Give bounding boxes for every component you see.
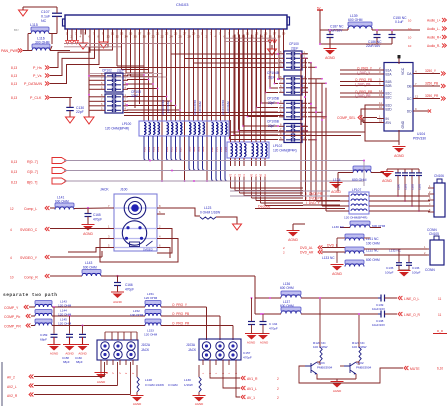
svg-text:LINE_O_R: LINE_O_R: [404, 313, 421, 317]
svg-text:22pF: 22pF: [268, 76, 275, 80]
svg-text:COMP_SEL: COMP_SEL: [337, 116, 356, 120]
svg-text:22pF: 22pF: [268, 101, 275, 105]
inductor L133 NC 600 OHM: [345, 260, 364, 264]
wire: [28, 33, 31, 35]
junction dots: [88, 75, 90, 77]
svg-text:13: 13: [379, 93, 383, 97]
svg-text:8,13: 8,13: [11, 96, 17, 100]
svg-text:120 OHM(8P4R): 120 OHM(8P4R): [273, 149, 297, 153]
svg-text:470pF: 470pF: [125, 288, 134, 292]
svg-text:VCC: VCC: [401, 67, 405, 75]
jack J100 pins: [106, 207, 114, 209]
svg-text:15: 15: [379, 119, 383, 123]
wires into LP107: [330, 195, 349, 197]
transistor Q102 PMBS3904: [344, 362, 356, 374]
svg-text:Audio_R-: Audio_R-: [427, 44, 440, 48]
svg-text:CP100: CP100: [289, 42, 299, 46]
svg-text:0 OHM 1/16W: 0 OHM 1/16W: [145, 383, 164, 387]
svg-text:3250_PB: 3250_PB: [425, 82, 438, 86]
capacitor C107 0.1uF NC: [52, 12, 62, 14]
svg-text:L134: L134: [333, 178, 341, 182]
jack J100 S-video circle: [122, 221, 146, 245]
svg-text:22pF: 22pF: [117, 69, 124, 73]
svg-text:LP101 8P4R: LP101 8P4R: [161, 100, 165, 115]
net LINE_O_R: [398, 312, 402, 316]
svg-text:C159: C159: [40, 333, 48, 337]
inductor L130 NC 600 OHM: [350, 221, 370, 225]
ground arrow mid: [103, 29, 105, 42]
svg-text:NC: NC: [41, 19, 47, 23]
wires CP right pins to routing column: [301, 53, 308, 55]
power arrow top-left: [19, 10, 28, 16]
inductor L144 120 OHM: [35, 310, 52, 314]
wires below LP102 with labels: [230, 158, 232, 166]
svg-text:LP103 8P4R: LP103 8P4R: [193, 100, 197, 115]
svg-text:600 OHM: 600 OHM: [83, 266, 97, 270]
inductor L143b 120 OHM: [35, 301, 52, 305]
svg-text:L143: L143: [85, 261, 93, 265]
resistor L128 0 OHM 1/16W: [136, 365, 138, 377]
svg-text:8,13: 8,13: [11, 74, 17, 78]
svg-text:8,13: 8,13: [11, 170, 17, 174]
svg-text:DVD_L: DVD_L: [327, 244, 338, 248]
svg-text:PMBS3904: PMBS3904: [356, 366, 372, 370]
svg-text:AGND: AGND: [195, 402, 203, 406]
AGND near LP107: [386, 169, 388, 172]
svg-text:8,13: 8,13: [11, 160, 17, 164]
svg-text:C182: C182: [411, 183, 414, 190]
svg-text:120 OHM: 120 OHM: [144, 333, 158, 337]
svg-text:CP104B: CP104B: [267, 71, 279, 75]
wire mute: [299, 366, 403, 383]
wires above LP102: [230, 120, 232, 142]
no-connect DD: [421, 110, 428, 112]
svg-text:JACK: JACK: [100, 188, 109, 192]
svg-text:100 OHM: 100 OHM: [366, 242, 380, 246]
net AV1_L: [223, 365, 240, 388]
wire audio rail: [320, 29, 348, 31]
ground C135/C136: [399, 269, 409, 271]
svg-text:AGND: AGND: [50, 352, 58, 356]
capacitors C180-C183 0.1uF: [397, 169, 399, 173]
svg-text:Decode: Decode: [258, 205, 270, 209]
svg-text:CP106B: CP106B: [267, 120, 279, 124]
svg-text:22pF: 22pF: [268, 124, 275, 128]
svg-text:AGND: AGND: [331, 190, 341, 194]
svg-text:AV_1: AV_1: [247, 396, 255, 400]
wire: [23, 50, 32, 52]
svg-text:10: 10: [408, 36, 412, 40]
svg-text:CP105B: CP105B: [267, 97, 279, 101]
wire jack right out: [165, 208, 200, 216]
svg-text:10uF/16V: 10uF/16V: [372, 307, 385, 311]
svg-text:0.1uF: 0.1uF: [395, 20, 403, 24]
svg-text:10: 10: [10, 276, 14, 280]
wire: [22, 7, 24, 10]
svg-text:C107: C107: [41, 10, 50, 14]
wire jack wrap: [100, 239, 178, 263]
svg-text:AV1_R: AV1_R: [247, 377, 258, 381]
wires transistors: [317, 361, 320, 363]
svg-text:AV2_L: AV2_L: [7, 385, 17, 389]
svg-text:AGND: AGND: [113, 300, 123, 304]
svg-text:BK!: BK!: [14, 28, 19, 32]
wire: [320, 43, 392, 45]
svg-text:AGND: AGND: [332, 272, 342, 276]
wires from CN103 pins: [143, 35, 145, 122]
svg-text:C183: C183: [418, 183, 421, 190]
svg-text:3250_Y: 3250_Y: [425, 69, 437, 73]
svg-text:4: 4: [10, 256, 12, 260]
svg-text:8: 8: [323, 116, 325, 120]
wire columns to LP107 rows: [311, 195, 330, 197]
svg-text:I_DVD_PR: I_DVD_PR: [306, 192, 323, 196]
svg-text:CP102: CP102: [102, 69, 112, 73]
svg-text:2: 2: [277, 396, 279, 400]
inductor L131 NC 100 OHM: [345, 234, 364, 238]
svg-text:100pF: 100pF: [385, 271, 394, 275]
svg-text:AGND: AGND: [78, 352, 86, 356]
svg-text:10: 10: [408, 44, 412, 48]
svg-text:Audio_L+: Audio_L+: [427, 19, 441, 23]
svg-text:1/16W: 1/16W: [184, 383, 193, 387]
net LINE_O_L: [398, 296, 402, 300]
svg-text:PI5V330: PI5V330: [413, 137, 426, 141]
gray signal lines to LP107: [230, 190, 330, 192]
svg-text:AV_2: AV_2: [7, 376, 15, 380]
jack J100 RCA circle: [124, 197, 146, 219]
svg-text:22pF: 22pF: [131, 94, 138, 98]
wires below J103A: [202, 360, 204, 365]
wire svideo-y riser: [101, 251, 103, 257]
svg-text:L128: L128: [145, 378, 152, 382]
svg-text:AGND: AGND: [382, 179, 392, 183]
wires B1D/B2D: [365, 105, 377, 121]
svg-text:LP107: LP107: [352, 188, 361, 192]
capacitor C186 NC 22uF/16V: [376, 30, 378, 34]
svg-text:8,13: 8,13: [11, 82, 17, 86]
svg-text:600 OHM: 600 OHM: [366, 258, 380, 262]
resistor L130 0 OHM 1/16W: [198, 365, 200, 377]
svg-text:GND: GND: [401, 120, 405, 128]
svg-text:P_DATA/IN: P_DATA/IN: [24, 82, 42, 86]
AGND under transistors: [332, 383, 342, 388]
wire pale rows: [90, 73, 162, 75]
svg-text:AGND: AGND: [65, 352, 73, 356]
jack J100 body: [114, 194, 157, 251]
svg-text:10: 10: [408, 27, 412, 31]
svg-text:8,13: 8,13: [11, 66, 17, 70]
net O_PRO_Y out: [161, 306, 207, 308]
svg-text:C157: C157: [243, 351, 251, 355]
wires pins 8-10: [89, 35, 108, 48]
AGND under L133: [336, 252, 338, 263]
ground arrows under left pins: [67, 35, 69, 41]
U104 pin stubs left: [377, 69, 384, 71]
svg-text:AGND: AGND: [394, 154, 404, 158]
svg-text:11: 11: [438, 297, 442, 301]
svg-text:LP102: LP102: [273, 144, 282, 148]
svg-text:470pF: 470pF: [243, 356, 252, 360]
jack J102A body: [97, 340, 138, 360]
svg-text:O_PRO_PB: O_PRO_PB: [172, 312, 189, 316]
svg-text:AGND: AGND: [247, 341, 255, 345]
svg-text:P_Vs: P_Vs: [33, 74, 42, 78]
svg-text:12: 12: [10, 207, 14, 211]
svg-text:O_PRO_Y: O_PRO_Y: [172, 303, 188, 307]
svg-text:600 OHM: 600 OHM: [280, 286, 294, 290]
svg-text:4: 4: [10, 228, 12, 232]
svg-text:AGND: AGND: [325, 56, 335, 60]
svg-text:AV2_R: AV2_R: [7, 394, 18, 398]
svg-text:12: 12: [415, 95, 419, 99]
svg-text:B2C: B2C: [386, 95, 393, 99]
svg-text:B2D: B2D: [386, 107, 393, 111]
capacitor C135 100pF: [398, 249, 400, 262]
svg-text:10uF/16V: 10uF/16V: [372, 323, 385, 327]
svg-text:C136: C136: [412, 266, 420, 270]
svg-text:470pF: 470pF: [93, 218, 102, 222]
svg-text:O_PRO_PR: O_PRO_PR: [172, 322, 190, 326]
svg-text:L130 NC: L130 NC: [332, 225, 345, 229]
svg-text:0 OHM 1/16W: 0 OHM 1/16W: [200, 211, 220, 215]
svg-text:PMBS3904: PMBS3904: [317, 366, 333, 370]
svg-text:600 OHM: 600 OHM: [348, 18, 363, 22]
svg-text:AGND: AGND: [97, 380, 105, 384]
ground arrow under C130: [66, 117, 75, 123]
jack J100 internal pin lines: [114, 207, 157, 209]
wire EN to ground rail: [365, 121, 399, 141]
svg-text:120 OHM(BP4R): 120 OHM(BP4R): [105, 127, 129, 131]
wire long mid rows: [230, 131, 365, 133]
svg-text:J102A: J102A: [141, 343, 151, 347]
wire jack bottom pins: [68, 248, 106, 253]
svg-text:2: 2: [277, 377, 279, 381]
net AV1_R: [210, 365, 240, 378]
AGND under C165: [83, 226, 93, 231]
svg-text:SVIDEO_Y: SVIDEO_Y: [20, 256, 38, 260]
svg-text:I_DVD_Y: I_DVD_Y: [306, 201, 321, 205]
svg-text:Audio_R+: Audio_R+: [427, 36, 441, 40]
net O_PRO_PB out: [161, 315, 220, 317]
svg-text:COMP_Pb: COMP_Pb: [4, 315, 20, 319]
svg-text:DB: DB: [407, 84, 411, 88]
svg-text:separate two path: separate two path: [3, 292, 58, 298]
AGND under C166: [113, 294, 123, 299]
svg-text:0.1uF: 0.1uF: [41, 15, 51, 19]
svg-text:Comp_R: Comp_R: [24, 276, 38, 280]
U104 pin stubs right: [413, 73, 421, 75]
capacitor C136 100pF: [408, 255, 410, 262]
svg-text:AGND: AGND: [333, 389, 341, 393]
svg-text:600 OHM: 600 OHM: [372, 224, 386, 228]
svg-text:120 OHM: 120 OHM: [198, 101, 202, 113]
svg-text:P_Hs: P_Hs: [33, 66, 42, 70]
svg-text:MUTE: MUTE: [410, 367, 420, 371]
svg-text:JACK: JACK: [188, 348, 197, 352]
svg-text:C135: C135: [386, 266, 394, 270]
svg-text:2: 2: [277, 387, 279, 391]
svg-text:C180: C180: [397, 183, 400, 190]
inductor L145 120 OHM: [35, 319, 52, 323]
wire staircase CP102: [127, 74, 144, 76]
svg-text:CN105: CN105: [429, 232, 439, 236]
ferrite array LP102 120 OHM(8P4R): [227, 142, 269, 158]
wires CP102/CP103 left common: [89, 75, 100, 77]
svg-text:/EN: /EN: [386, 121, 392, 125]
svg-text:LP100: LP100: [122, 122, 131, 126]
capacitor C134 470pF: [262, 313, 264, 315]
svg-text:DC: DC: [407, 97, 412, 101]
svg-text:3250_PR: 3250_PR: [425, 94, 439, 98]
net AV_1: [236, 365, 240, 397]
wires beads to CN105: [364, 248, 427, 250]
svg-text:C165: C165: [93, 213, 101, 217]
jack J103A body: [199, 339, 241, 360]
svg-text:P_CLK: P_CLK: [30, 96, 42, 100]
svg-text:6,10: 6,10: [437, 367, 443, 371]
ground arrow pin4: [82, 29, 84, 43]
svg-text:DVD_AR: DVD_AR: [300, 251, 314, 255]
svg-text:B2B: B2B: [386, 84, 392, 88]
net O_PRO_PR out: [161, 325, 233, 327]
svg-text:100pF: 100pF: [412, 271, 421, 275]
wire staircase left: [116, 35, 118, 67]
svg-text:Audio_L-: Audio_L-: [427, 27, 440, 31]
svg-text:LP104 8P4R: LP104 8P4R: [221, 100, 225, 115]
svg-text:B2A: B2A: [386, 72, 393, 76]
transistor Q103 PMBS3904: [305, 362, 317, 374]
svg-text:R[0..7]: R[0..7]: [27, 160, 38, 164]
svg-text:10: 10: [379, 105, 383, 109]
svg-text:AV1_L: AV1_L: [247, 387, 257, 391]
capacitor C139 10uF/16V: [378, 297, 381, 299]
capacitor C154 470pF: [251, 297, 253, 299]
svg-text:L123: L123: [204, 206, 212, 210]
frame edge bottom-left: [1, 362, 3, 406]
wire row to CP100: [99, 67, 278, 69]
AGND above DVD: [288, 232, 298, 237]
svg-text:470pF: 470pF: [269, 327, 278, 331]
svg-text:LINE_O_L: LINE_O_L: [404, 297, 420, 301]
svg-text:C 134: C 134: [269, 322, 278, 326]
svg-text:COMP_Y: COMP_Y: [4, 306, 19, 310]
svg-text:68pF: 68pF: [63, 360, 70, 364]
net 3250_PR: [421, 98, 440, 100]
net 3250_Y: [421, 73, 440, 75]
svg-text:DD: DD: [407, 109, 412, 113]
capacitor C165 470pF: [87, 207, 89, 209]
svg-text:PAN_PWR: PAN_PWR: [1, 49, 19, 53]
svg-text:AGND: AGND: [260, 341, 268, 345]
capacitor C166 470pF: [116, 275, 118, 277]
svg-text:D_R: D_R: [437, 329, 444, 333]
AGND under J102A: [100, 365, 102, 372]
svg-text:120 OHM: 120 OHM: [166, 101, 170, 113]
svg-text:68pF: 68pF: [40, 338, 47, 342]
net 3250_PB: [421, 85, 440, 87]
svg-text:DVD_AL: DVD_AL: [300, 246, 313, 250]
ground arrow under CP column: [84, 117, 94, 124]
svg-text:J103A: J103A: [186, 343, 196, 347]
svg-text:SVIDEO_C: SVIDEO_C: [20, 228, 38, 232]
svg-text:8,13: 8,13: [11, 181, 17, 185]
svg-text:U104: U104: [417, 132, 425, 136]
capacitor C130 22pF: [69, 98, 71, 108]
svg-text:COMP_PR: COMP_PR: [4, 325, 21, 329]
wire long rows: [124, 112, 284, 114]
svg-text:L115: L115: [30, 23, 38, 27]
AGND mid-right: [331, 184, 341, 189]
wire line left: [255, 297, 281, 299]
svg-text:JACK: JACK: [141, 348, 150, 352]
AGND pair: [247, 335, 257, 340]
svg-text:SVIDEO: SVIDEO: [143, 248, 153, 252]
svg-text:120 OHM: 120 OHM: [144, 296, 158, 300]
svg-text:0 OHM: 0 OHM: [168, 383, 178, 387]
inductor L132 NC 100 OHM: [345, 247, 364, 251]
svg-text:11: 11: [438, 313, 442, 317]
svg-text:CONN: CONN: [425, 268, 435, 272]
svg-text:L130: L130: [184, 378, 191, 382]
svg-text:120 OHM(BP4R): 120 OHM(BP4R): [344, 216, 367, 220]
svg-text:CN106: CN106: [434, 174, 444, 178]
op-amp U104 PI5V330 video switch: [384, 63, 413, 132]
svg-text:C181: C181: [404, 183, 407, 190]
svg-text:22pF: 22pF: [76, 110, 84, 114]
svg-text:B[0..7]: B[0..7]: [27, 181, 37, 185]
U104 VCC wire: [398, 56, 400, 64]
ground arrow L123: [233, 224, 242, 230]
svg-text:AGND: AGND: [288, 238, 298, 242]
svg-text:120 OHM: 120 OHM: [226, 101, 230, 113]
svg-text:600 OHM: 600 OHM: [352, 178, 367, 182]
svg-text:AGND: AGND: [83, 232, 93, 236]
inductor L134 600 OHM: [353, 166, 371, 170]
wires below J102A: [100, 360, 102, 365]
ground arrows right section: [268, 40, 272, 44]
svg-text:100 OHM: 100 OHM: [130, 313, 144, 317]
svg-text:Comp_L: Comp_L: [24, 207, 37, 211]
wires into J102A top: [104, 332, 106, 340]
svg-text:C166: C166: [125, 283, 133, 287]
svg-text:68pF: 68pF: [76, 360, 83, 364]
AGND audio: [329, 44, 331, 48]
U104 GND wire to AGND: [398, 130, 400, 145]
svg-text:J100: J100: [120, 188, 127, 192]
capacitor C138 10uF/16V: [378, 313, 381, 315]
CN103 pins and pin numbers: [67, 29, 69, 35]
svg-text:I_DVD_PB: I_DVD_PB: [306, 197, 323, 201]
svg-text:22pF: 22pF: [291, 47, 298, 51]
svg-text:G[0..7]: G[0..7]: [27, 170, 38, 174]
AGND C159 row: [49, 346, 59, 351]
svg-text:22uF/16V: 22uF/16V: [366, 44, 381, 48]
svg-text:L133 NC: L133 NC: [322, 256, 335, 260]
svg-text:AGND: AGND: [133, 402, 141, 406]
svg-text:10: 10: [408, 19, 412, 23]
svg-text:CN103: CN103: [176, 2, 189, 7]
net MUTE: [404, 366, 408, 370]
